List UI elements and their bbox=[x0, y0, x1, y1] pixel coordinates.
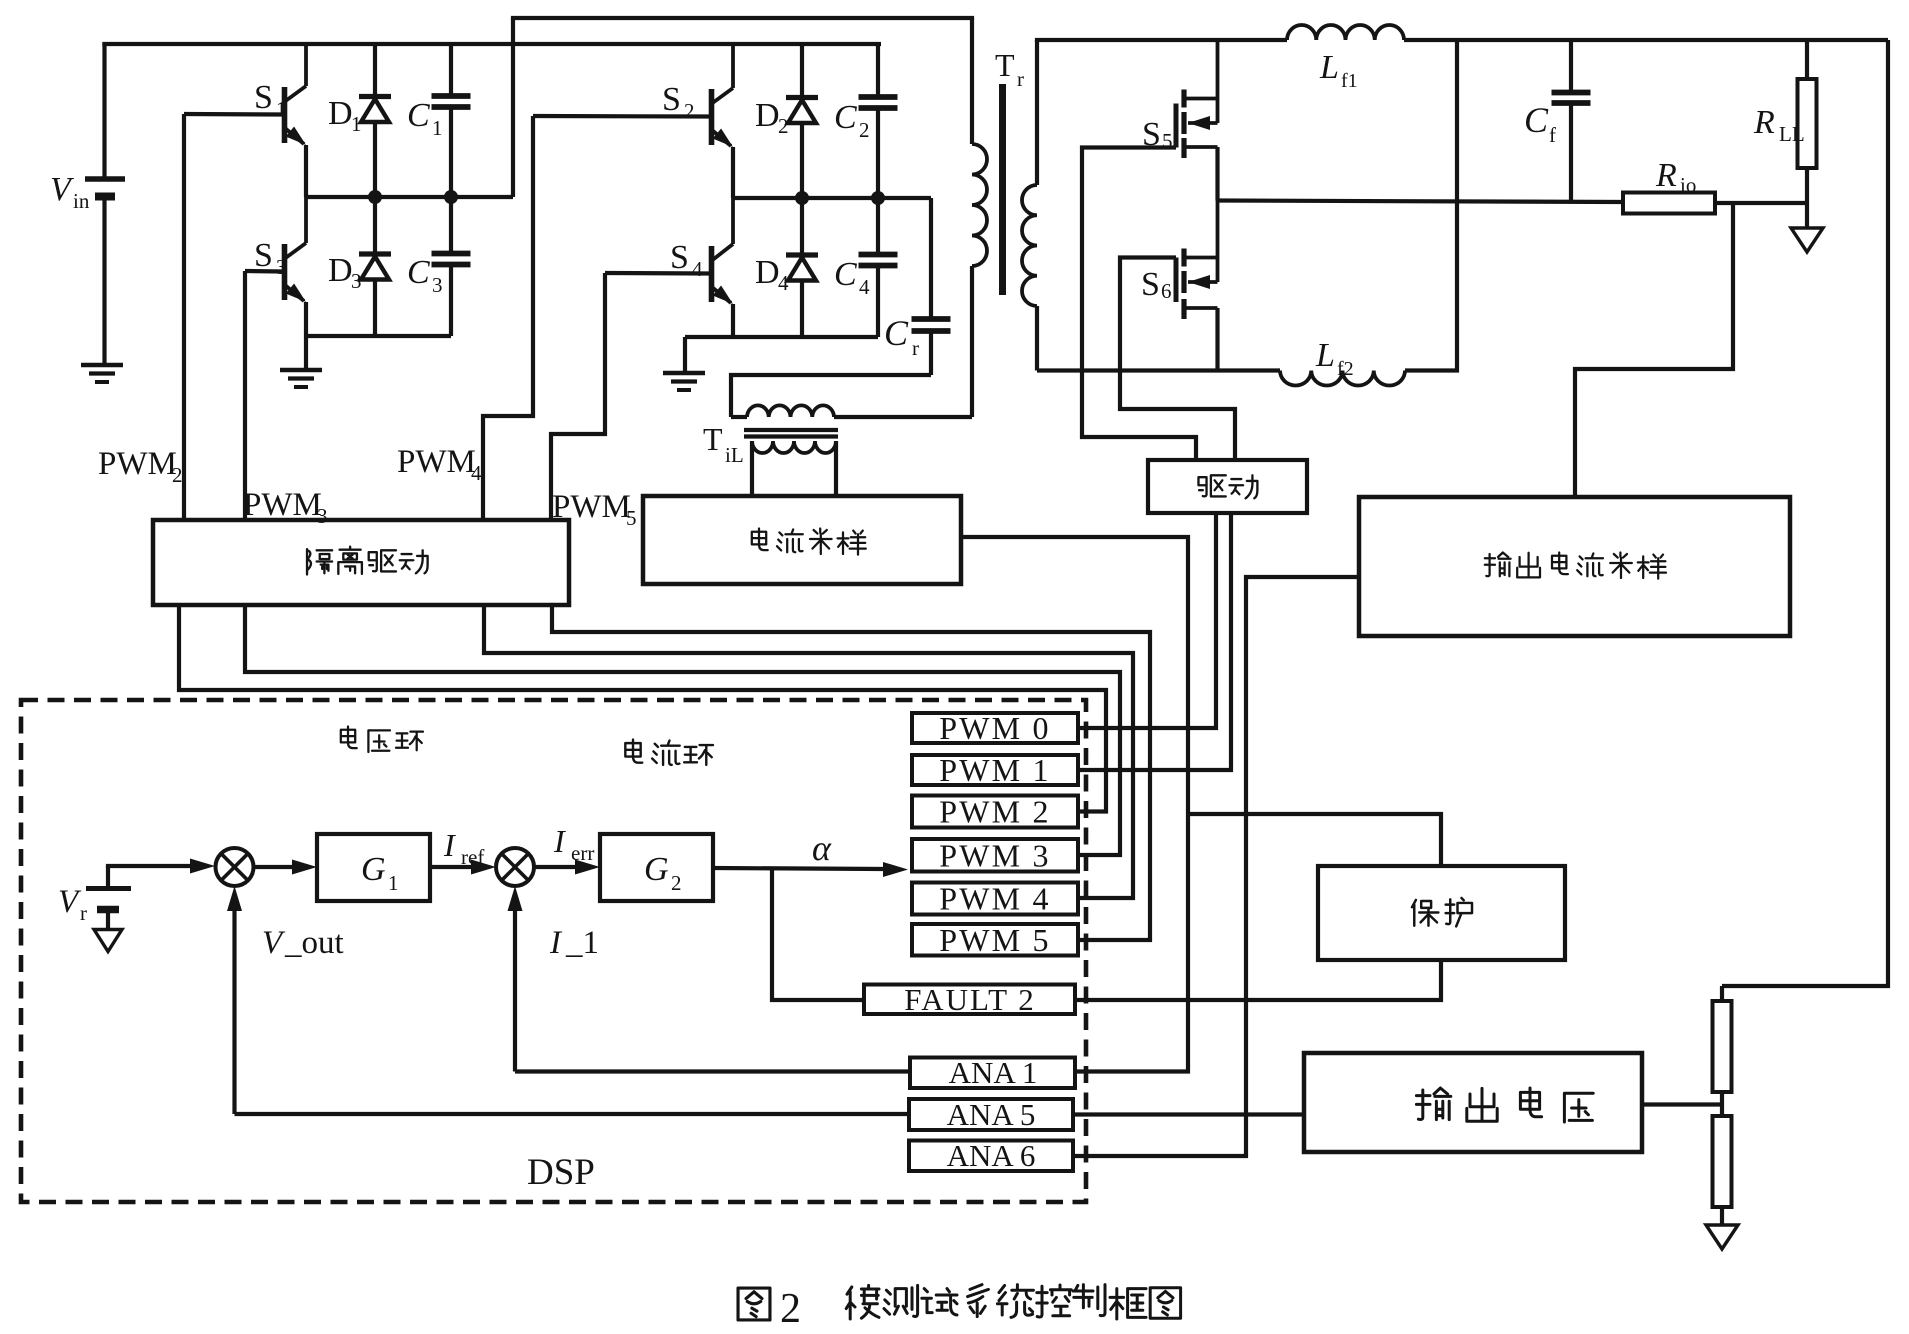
transistor S2 bbox=[731, 44, 735, 88]
wire S6 source to bottom rail bbox=[1215, 308, 1219, 371]
filter inductor Lf2 bbox=[1280, 371, 1405, 386]
svg-text:3: 3 bbox=[276, 255, 287, 279]
svg-text:D: D bbox=[755, 254, 780, 291]
wire S3 emitter to bottom rail bbox=[304, 302, 308, 336]
svg-text:1: 1 bbox=[388, 871, 399, 895]
output current sampling block bbox=[1359, 497, 1790, 636]
svg-text:PWM: PWM bbox=[98, 446, 177, 482]
transistor S4 bbox=[731, 198, 735, 244]
divider resistor upper bbox=[1720, 986, 1724, 1001]
block G2 bbox=[600, 834, 713, 901]
svg-text:PWM 3: PWM 3 bbox=[939, 837, 1050, 873]
wire sum1 to G1 bbox=[254, 865, 296, 869]
block G1 bbox=[317, 834, 430, 901]
svg-text:R: R bbox=[1655, 157, 1677, 194]
svg-text:C: C bbox=[884, 313, 909, 353]
wire current sampling to ANA1 bbox=[961, 537, 1188, 1072]
port box ANA 5 bbox=[909, 1099, 1073, 1130]
svg-text:4: 4 bbox=[471, 461, 482, 485]
node B mid rail of leg 2 bbox=[733, 196, 931, 200]
DC source Vin battery symbol bbox=[85, 176, 125, 182]
outer top rail A to transformer bbox=[511, 16, 974, 20]
svg-text:I: I bbox=[443, 827, 456, 863]
svg-text:4: 4 bbox=[778, 271, 789, 295]
svg-text:io: io bbox=[1680, 173, 1696, 197]
port box PWM 4 bbox=[912, 883, 1078, 915]
port box PWM 1 bbox=[912, 755, 1078, 785]
svg-text:3: 3 bbox=[432, 273, 443, 297]
caption 图 2 bbox=[738, 1288, 770, 1320]
svg-text:f2: f2 bbox=[1337, 358, 1354, 380]
capacitor C2 with wire bbox=[876, 44, 880, 96]
DSP boundary dashed box bbox=[21, 700, 1086, 1202]
wire isolated-drive to PWM3 box bbox=[245, 605, 1120, 855]
svg-text:3: 3 bbox=[351, 269, 362, 293]
wire Cr bottom to TiL bbox=[731, 375, 931, 417]
svg-text:DSP: DSP bbox=[527, 1152, 595, 1193]
wire protection top to sampling line bbox=[1188, 814, 1441, 866]
svg-text:ANA 5: ANA 5 bbox=[947, 1097, 1036, 1132]
capacitor C4 with wire bbox=[876, 198, 880, 254]
capacitor C3 with wire bbox=[449, 197, 453, 253]
output current sampling text 输出电流采样 bbox=[1485, 553, 1511, 577]
svg-text:PWM 1: PWM 1 bbox=[939, 752, 1050, 788]
svg-text:f1: f1 bbox=[1341, 70, 1358, 92]
svg-text:G: G bbox=[644, 851, 669, 888]
junction dot D1-node A bbox=[368, 190, 382, 204]
top rail B (Vin+ bus) bbox=[102, 42, 881, 46]
filter capacitor Cf bbox=[1569, 40, 1573, 92]
protection block bbox=[1318, 866, 1565, 960]
output voltage text 输出电压 bbox=[1416, 1088, 1450, 1120]
svg-text:R: R bbox=[1753, 104, 1775, 141]
svg-text:2: 2 bbox=[778, 114, 789, 138]
svg-text:2: 2 bbox=[172, 463, 183, 487]
transistor S3 bbox=[304, 197, 308, 243]
svg-text:in: in bbox=[73, 189, 90, 213]
svg-text:1: 1 bbox=[432, 116, 443, 140]
TiL secondary winding bbox=[752, 441, 836, 453]
diode D4 with wire bbox=[800, 198, 804, 337]
port box PWM 5 bbox=[912, 924, 1078, 956]
diode D3 with wire bbox=[373, 197, 377, 336]
port box FAULT 2 bbox=[864, 985, 1075, 1015]
wire S1 emitter to node A bbox=[304, 145, 308, 197]
rectifier MOSFET S5 bbox=[1216, 40, 1220, 123]
svg-text:D: D bbox=[328, 252, 353, 289]
svg-text:f: f bbox=[1549, 123, 1556, 147]
svg-text:C: C bbox=[834, 99, 857, 136]
wire isolated-drive to PWM2 box bbox=[179, 605, 1106, 812]
wire protection bottom to FAULT2 bbox=[1075, 960, 1441, 1000]
svg-text:r: r bbox=[80, 901, 87, 925]
output mid rail to Rio bbox=[1218, 201, 1624, 203]
wire output current sampling to ANA6 bbox=[1073, 577, 1359, 1156]
svg-text:LL: LL bbox=[1779, 122, 1805, 146]
wire G2 output alpha to PWM3 box bbox=[713, 868, 884, 869]
svg-text:_1: _1 bbox=[565, 925, 599, 961]
wire Lf2 to output plus node bbox=[1405, 40, 1457, 371]
wire isolated-drive to PWM5 box bbox=[552, 605, 1150, 940]
sense resistor Rio bbox=[1623, 193, 1715, 214]
svg-text:1: 1 bbox=[276, 97, 287, 121]
load resistor RLL bbox=[1805, 40, 1809, 79]
svg-text:_out: _out bbox=[284, 925, 344, 961]
ground arrow at load return bbox=[1805, 203, 1809, 228]
wire PWM2 gate line S1 bbox=[182, 114, 186, 520]
svg-text:6: 6 bbox=[1161, 279, 1172, 303]
drive block text 驱动 bbox=[1198, 475, 1225, 496]
svg-text:S: S bbox=[670, 239, 689, 276]
port box PWM 0 bbox=[912, 713, 1078, 743]
wire to ground of leg 2 bbox=[683, 337, 687, 372]
diode D2 with wire bbox=[800, 44, 804, 198]
svg-text:PWM: PWM bbox=[243, 487, 322, 523]
port box PWM 2 bbox=[912, 796, 1078, 828]
summing junction 2 bbox=[496, 848, 534, 886]
TiL secondary leads bbox=[750, 441, 754, 497]
wire isolated-drive to PWM4 box bbox=[484, 605, 1133, 898]
transformer Tr primary winding bbox=[970, 266, 974, 417]
wire PWM4 gate line S2 bbox=[483, 116, 533, 520]
wire S6 gate to drive block bbox=[1120, 258, 1235, 461]
diode D1 with wire bbox=[373, 44, 377, 197]
isolated drive block text 隔离驱动 bbox=[307, 549, 332, 574]
svg-text:5: 5 bbox=[626, 506, 637, 530]
svg-text:I: I bbox=[549, 925, 563, 961]
svg-text:S: S bbox=[662, 81, 681, 118]
svg-text:D: D bbox=[328, 95, 353, 132]
svg-text:r: r bbox=[912, 336, 919, 360]
label voltage loop 电压环 bbox=[341, 727, 357, 749]
secondary bottom rail bbox=[1037, 368, 1280, 372]
wire Vin- to ground bbox=[102, 197, 106, 365]
wire Vr to summing junction 1 bbox=[106, 866, 110, 889]
port box PWM 3 bbox=[912, 839, 1078, 872]
wire sum2 to G2 Ierr bbox=[534, 865, 578, 869]
wire drive block to PWM0 box bbox=[1078, 513, 1216, 728]
svg-text:1: 1 bbox=[351, 112, 362, 136]
wire Vr to ground bbox=[106, 910, 110, 930]
wire S5 gate to drive block bbox=[1082, 148, 1196, 461]
svg-text:PWM 4: PWM 4 bbox=[939, 881, 1050, 917]
svg-text:C: C bbox=[1524, 100, 1549, 140]
ground under S3 bbox=[280, 368, 322, 372]
wire ANA5 output voltage feedback bbox=[235, 1112, 910, 1116]
wire PWM3 gate line S3 bbox=[243, 271, 247, 520]
caption 被测试系统控制框图 bbox=[846, 1285, 879, 1319]
svg-text:S: S bbox=[1141, 266, 1160, 303]
wire S3 base (PWM3 gate lead) bbox=[245, 269, 282, 274]
filter inductor Lf1 bbox=[1287, 25, 1404, 40]
svg-text:T: T bbox=[703, 421, 723, 457]
reference source Vr battery bbox=[86, 886, 131, 891]
wire Rio to load node bbox=[1715, 201, 1807, 205]
wire V_out feedback into sum1 bbox=[232, 908, 236, 1114]
svg-text:S: S bbox=[254, 79, 273, 116]
svg-text:D: D bbox=[755, 97, 780, 134]
TiL core bars bbox=[744, 428, 838, 432]
wire Rio sense to output current sampling bbox=[1575, 203, 1733, 497]
wire drive block to PWM1 box bbox=[1078, 513, 1231, 770]
svg-text:C: C bbox=[407, 254, 430, 291]
wire S4 emitter to bottom rail bbox=[731, 304, 735, 337]
ground arrow under divider bbox=[1706, 1225, 1738, 1249]
protection block text 保护 bbox=[1412, 900, 1438, 926]
wire output voltage block to divider bbox=[1642, 1102, 1722, 1106]
svg-text:3: 3 bbox=[317, 504, 328, 528]
rectifier MOSFET S6 bbox=[1216, 201, 1220, 283]
bottom rail of leg 2 bbox=[685, 335, 878, 339]
wire I_1 feedback into sum2 bbox=[513, 908, 517, 1072]
svg-text:PWM: PWM bbox=[397, 444, 476, 480]
output plus rail bbox=[1404, 38, 1888, 42]
divider resistor lower bbox=[1720, 1105, 1724, 1117]
isolated drive block bbox=[153, 520, 569, 605]
svg-text:PWM 5: PWM 5 bbox=[939, 922, 1050, 958]
summing junction 1 bbox=[216, 848, 254, 886]
drive block bbox=[1148, 460, 1307, 513]
current sampling block bbox=[643, 496, 961, 584]
svg-text:4: 4 bbox=[859, 275, 870, 299]
wire output plus rail down right edge bbox=[1722, 40, 1888, 986]
wire PWM5 gate line S4 bbox=[551, 273, 605, 520]
junction dot D2-node B bbox=[795, 191, 809, 205]
svg-text:ref: ref bbox=[461, 845, 484, 869]
wire S5 source to output mid rail bbox=[1215, 147, 1219, 201]
svg-text:ANA 1: ANA 1 bbox=[949, 1055, 1038, 1090]
svg-text:FAULT 2: FAULT 2 bbox=[904, 982, 1035, 1017]
svg-text:C: C bbox=[407, 97, 430, 134]
wire S2 base (PWM4 gate lead) bbox=[533, 114, 709, 119]
transistor S1 bbox=[304, 44, 308, 86]
junction dot C1-node A bbox=[444, 190, 458, 204]
transformer Tr core bbox=[999, 84, 1006, 295]
bottom rail of leg 1 bbox=[306, 334, 451, 338]
junction dot C2-node B bbox=[871, 191, 885, 205]
wire node A up to outer rail bbox=[511, 18, 515, 197]
svg-text:2: 2 bbox=[671, 871, 682, 895]
wire S2 emitter to node B bbox=[731, 147, 735, 198]
wire S1 base (PWM2 gate lead) bbox=[184, 112, 282, 117]
wire Vin+ to top rail bbox=[102, 44, 106, 179]
wire ANA1 current feedback segment bbox=[515, 1069, 910, 1073]
current transformer TiL primary bbox=[731, 415, 747, 419]
svg-text:I: I bbox=[553, 823, 566, 859]
node A mid rail of leg 1 bbox=[306, 195, 513, 199]
ground under leg 2 bbox=[663, 371, 705, 375]
svg-text:PWM: PWM bbox=[552, 489, 631, 525]
secondary top rail bbox=[1035, 38, 1287, 42]
resonant capacitor Cr bbox=[929, 198, 933, 318]
output voltage block bbox=[1304, 1053, 1642, 1152]
port box ANA 1 bbox=[910, 1058, 1075, 1089]
capacitor C1 with wire bbox=[449, 44, 453, 95]
wire S4 base (PWM5 gate lead) bbox=[605, 271, 709, 276]
svg-text:L: L bbox=[1319, 49, 1339, 86]
svg-text:T: T bbox=[995, 47, 1015, 83]
ground under Vin bbox=[81, 363, 123, 367]
svg-text:G: G bbox=[361, 851, 386, 888]
svg-text:S: S bbox=[254, 237, 273, 274]
svg-text:ANA 6: ANA 6 bbox=[947, 1138, 1036, 1173]
wire alpha branch to FAULT2 box bbox=[772, 868, 864, 1000]
ground arrow under Vr bbox=[94, 930, 122, 952]
svg-text:2: 2 bbox=[859, 118, 870, 142]
svg-text:PWM 0: PWM 0 bbox=[939, 710, 1050, 746]
svg-text:iL: iL bbox=[725, 443, 744, 467]
svg-text:2: 2 bbox=[780, 1286, 801, 1332]
svg-text:C: C bbox=[834, 256, 857, 293]
svg-text:4: 4 bbox=[692, 257, 703, 281]
transformer Tr secondary winding bbox=[1035, 40, 1039, 185]
port box ANA 6 bbox=[909, 1141, 1073, 1172]
svg-text:PWM 2: PWM 2 bbox=[939, 794, 1050, 830]
svg-text:err: err bbox=[571, 841, 594, 865]
label current loop 电流环 bbox=[625, 740, 642, 763]
svg-text:2: 2 bbox=[684, 99, 695, 123]
wire S3 emitter to ground bbox=[304, 336, 308, 369]
wire G1 to sum2 Iref bbox=[430, 865, 474, 869]
current sampling block text 电流采样 bbox=[752, 529, 768, 551]
svg-text:L: L bbox=[1315, 337, 1335, 374]
svg-text:r: r bbox=[1017, 67, 1024, 91]
svg-text:α: α bbox=[812, 828, 832, 868]
